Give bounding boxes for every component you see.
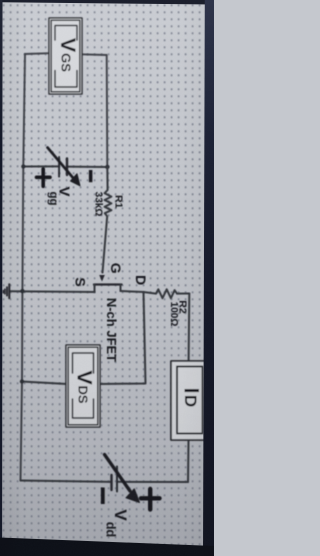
wire: right drop from VGS corner to R1 node [106, 55, 109, 167]
transistor Q1 channel bar [94, 283, 122, 285]
photo border left [0, 0, 3, 556]
node: rail / VDS junction [20, 379, 24, 383]
Vdd minus sign [101, 488, 105, 505]
photo border bottom [0, 538, 214, 556]
transistor Q1 N-ch JFET gate arrow [99, 275, 105, 282]
node: rail / Vgg junction [21, 164, 25, 168]
photo lighting overlay [0, 0, 214, 556]
label Vgg [47, 186, 73, 205]
resistor R2 100 ohm [156, 289, 177, 298]
Vgg minus sign [89, 170, 93, 182]
Vgg plus sign [37, 169, 51, 186]
wire: R2 corner down to ID meter [188, 294, 191, 362]
wire: top-left to VGS meter [25, 52, 50, 55]
wire: ground to source [10, 290, 95, 293]
wire: bottom right segment to Vdd [117, 481, 188, 483]
wire: drain node down to VDS [99, 292, 146, 384]
battery Vgg plate long [58, 157, 60, 177]
wire: Vdd to bottom-left corner [21, 481, 112, 482]
wire: left common rail [21, 54, 26, 481]
node: Vgg / R1 junction [105, 165, 109, 169]
node: rail / ground junction [20, 289, 24, 293]
Vdd plus sign [141, 489, 160, 510]
wire: drain to R2 [121, 291, 157, 294]
wire: R2 to right corner [177, 293, 189, 295]
wire: VGS meter to right corner [81, 53, 107, 56]
ground symbol [3, 284, 9, 298]
Vdd variable arrow [105, 455, 140, 503]
transistor Q1 source lead [94, 285, 96, 293]
Vgg variable arrow [48, 148, 81, 186]
dot grid [0, 0, 214, 556]
battery Vdd plate long [116, 467, 118, 492]
voltmeter VDS box [66, 345, 100, 427]
battery Vdd plate short [110, 475, 112, 490]
wire: Vgg branch right segment [67, 166, 107, 168]
paper background [0, 0, 214, 556]
voltmeter VGS box [49, 18, 82, 94]
wire: ID meter down to bottom corner [187, 440, 190, 482]
photo border top [0, 0, 214, 5]
resistor R1 33k [103, 167, 112, 273]
battery Vgg plate short [66, 159, 68, 176]
transistor Q1 drain lead [120, 285, 122, 292]
wire: Vgg branch left segment [23, 165, 59, 167]
wire: VDS left to rail [22, 382, 67, 385]
label Vdd [104, 509, 131, 537]
photo border right [203, 0, 214, 556]
ammeter ID box [171, 361, 207, 440]
